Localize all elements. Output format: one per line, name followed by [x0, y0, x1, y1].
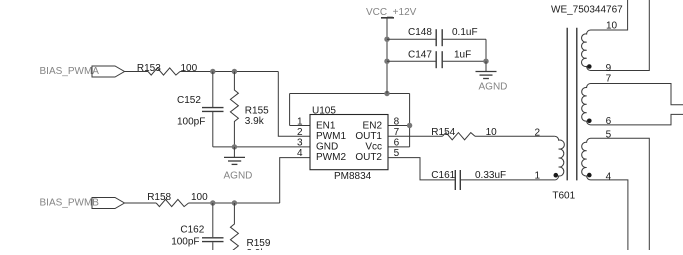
capacitor C162: [212, 203, 214, 237]
svg-text:100pF: 100pF: [171, 237, 199, 248]
wire pentagon to R153: [125, 71, 149, 73]
svg-text:BIAS_PWMA: BIAS_PWMA: [40, 66, 100, 77]
capacitor C152: [212, 72, 214, 108]
svg-text:0.33uF: 0.33uF: [475, 170, 506, 181]
svg-text:BIAS_PWMB: BIAS_PWMB: [40, 198, 100, 209]
svg-text:OUT1: OUT1: [355, 131, 382, 142]
node junction C162 top: [210, 200, 215, 205]
resistor R158: [156, 199, 188, 206]
svg-text:6: 6: [394, 138, 400, 149]
svg-text:R158: R158: [147, 192, 171, 203]
transformer secondary winding 2 (pins 7,6): [582, 84, 683, 125]
node junction C147: [384, 59, 389, 64]
svg-text:4: 4: [297, 148, 303, 159]
wire C161 to transformer pin1: [461, 179, 555, 181]
transformer winding2 polarity dot: [587, 119, 592, 124]
svg-text:Vcc: Vcc: [365, 142, 382, 153]
svg-text:C162: C162: [180, 225, 204, 236]
svg-text:8: 8: [394, 116, 400, 127]
svg-text:GND: GND: [316, 142, 338, 153]
capacitor C161: [454, 170, 456, 190]
capacitor C147: [387, 60, 436, 62]
wire pentagon to R158: [125, 202, 157, 204]
svg-text:AGND: AGND: [224, 170, 253, 181]
resistor R154: [443, 133, 476, 140]
svg-text:EN2: EN2: [363, 120, 383, 131]
wire U105 pin1 to EN rail: [290, 94, 310, 126]
resistor R155: [230, 72, 238, 147]
svg-text:PWM2: PWM2: [316, 152, 346, 163]
svg-text:1uF: 1uF: [454, 50, 471, 61]
node junction pin8: [407, 123, 412, 128]
svg-text:2: 2: [297, 127, 303, 138]
svg-text:C147: C147: [408, 50, 432, 61]
wire R154 to transformer pin2: [475, 135, 555, 137]
svg-text:3.9k: 3.9k: [245, 116, 265, 127]
transformer primary polarity dot: [554, 173, 559, 178]
svg-text:T601: T601: [552, 191, 575, 202]
svg-text:U105: U105: [312, 106, 336, 117]
svg-text:6: 6: [606, 116, 612, 127]
node junction caps right: [483, 59, 488, 64]
wire VCC vertical: [386, 18, 388, 94]
svg-text:R154: R154: [431, 127, 455, 138]
ground AGND (right): [485, 61, 487, 71]
wire U105 pin5 to C161: [388, 158, 455, 180]
svg-text:C161: C161: [431, 170, 455, 181]
port connector BIAS_PWMA: [92, 66, 125, 77]
node junction R155 top: [232, 69, 237, 74]
svg-text:1: 1: [534, 170, 540, 181]
svg-text:EN1: EN1: [316, 120, 336, 131]
svg-text:100: 100: [181, 63, 198, 74]
svg-text:3: 3: [297, 138, 303, 149]
wire U105 pin7 to R154: [388, 135, 443, 137]
op-amp U105 box: [310, 115, 388, 170]
transformer winding1 polarity dot: [587, 64, 592, 69]
capacitor C148: [387, 38, 436, 40]
node junction C152 top: [210, 69, 215, 74]
resistor R159: [230, 203, 238, 252]
ground AGND (left): [233, 147, 235, 157]
svg-text:WE_750344767: WE_750344767: [551, 5, 623, 16]
svg-text:0.1uF: 0.1uF: [452, 27, 478, 38]
node junction C148: [384, 37, 389, 42]
node junction R159 top: [232, 200, 237, 205]
svg-text:VCC_+12V: VCC_+12V: [366, 7, 417, 18]
wire corner to U105 pin4: [280, 158, 310, 203]
svg-text:AGND: AGND: [479, 82, 508, 93]
svg-text:9: 9: [606, 63, 612, 74]
svg-text:1: 1: [297, 116, 303, 127]
port connector BIAS_PWMB: [92, 198, 125, 209]
svg-text:PM8834: PM8834: [334, 171, 372, 182]
wire EN rail down to pin8 and pin6: [388, 94, 410, 147]
wire R158 to pin4 corner: [189, 202, 280, 204]
svg-text:2: 2: [534, 127, 540, 138]
wire caps right vertical: [485, 39, 487, 61]
transformer core: [567, 28, 577, 181]
svg-text:7: 7: [606, 74, 612, 85]
svg-text:100pF: 100pF: [177, 116, 205, 127]
svg-text:10: 10: [606, 20, 618, 31]
svg-text:4: 4: [606, 171, 612, 182]
wire ground rail to U105 pin3: [213, 146, 310, 148]
svg-text:OUT2: OUT2: [355, 152, 382, 163]
svg-text:R153: R153: [137, 63, 161, 74]
svg-text:5: 5: [606, 129, 612, 140]
transformer secondary winding 3 (pins 5,4): [582, 138, 650, 250]
transformer winding3 polarity dot: [587, 173, 592, 178]
node junction EN/VCC: [384, 91, 389, 96]
svg-text:C152: C152: [177, 95, 201, 106]
node junction ground: [232, 144, 237, 149]
svg-text:C148: C148: [408, 27, 432, 38]
wire EN rail: [290, 93, 410, 95]
transformer secondary winding 1 (pins 10,9): [582, 0, 650, 71]
wire R153 to pin2 corner: [180, 71, 278, 73]
wire corner to U105 pin2: [278, 72, 310, 137]
svg-text:100: 100: [191, 192, 208, 203]
svg-text:PWM1: PWM1: [316, 131, 346, 142]
resistor R153: [148, 68, 180, 75]
